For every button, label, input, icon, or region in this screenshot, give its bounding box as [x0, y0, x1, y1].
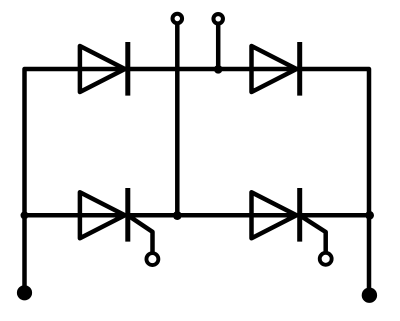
wire: stub from terminal 1 down to bottom bus (crosses top bus): [175, 23, 180, 216]
junction dot: right vertical on bottom bus: [365, 211, 374, 220]
thyristor Q1 triangle (bottom-left): [80, 192, 125, 238]
thyristor Q2 gate terminal (open circle): [320, 253, 332, 265]
junction dot: terminal 1 stub on bottom bus: [173, 211, 182, 220]
diode D2 triangle (top-right): [252, 46, 297, 92]
terminal 2 (top AC terminal, open circle): [213, 14, 223, 24]
junction dot: terminal 2 stub on top bus: [214, 65, 223, 74]
bottom-right terminal dot (filled): [362, 288, 377, 303]
thyristor Q1 gate terminal (open circle): [146, 253, 158, 265]
wire: left vertical + top bus + right vertical (outer frame): [25, 69, 370, 295]
thyristor Q2 cathode bar: [297, 188, 302, 242]
thyristor Q1 cathode bar: [125, 188, 130, 242]
bottom-left terminal dot (filled): [17, 285, 32, 300]
diode D1 triangle (top-left): [80, 46, 125, 92]
diode D2 cathode bar: [297, 42, 302, 96]
thyristor Q2 gate wire: [300, 215, 326, 254]
wire: bottom bus: [25, 213, 370, 218]
thyristor Q1 gate wire: [128, 215, 153, 254]
diode D1 cathode bar: [125, 42, 130, 96]
terminal 1 (top AC terminal, open circle): [173, 14, 183, 24]
junction dot: left vertical on bottom bus: [21, 211, 29, 219]
wire: stub from terminal 2 down to top bus: [216, 23, 221, 69]
thyristor Q2 triangle (bottom-right): [252, 192, 297, 238]
